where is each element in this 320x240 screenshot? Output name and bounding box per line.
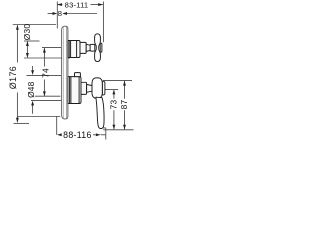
escutcheon plate side view [62, 26, 68, 119]
svg-text:Ø48: Ø48 [26, 81, 36, 98]
dimension 73 line upper segment [113, 90, 115, 99]
svg-text:87: 87 [119, 100, 129, 110]
dimension D30 down arrow [26, 53, 29, 58]
svg-text:88-116: 88-116 [63, 130, 92, 140]
dimension D48 top extension line [27, 74, 62, 76]
dimension D176 up arrow [16, 25, 19, 30]
dimension 74 line upper segment [43, 48, 45, 66]
dimension 83-111 right arrow [98, 3, 103, 6]
dimension 8 right-pointing arrow [53, 12, 58, 15]
dimension D48 upper leader with down arrow [32, 66, 34, 71]
lower neck [81, 82, 87, 94]
wall extension line [56, 2, 58, 29]
dimension 73 line lower segment [113, 110, 115, 129]
dimension 87 up arrow [123, 81, 126, 86]
dimension 8 left-pointing arrow [62, 12, 67, 15]
dimension 83-111 left arrow [57, 3, 62, 6]
dimension 74 line lower segment [43, 80, 45, 96]
upper sleeve D30 [68, 41, 80, 58]
svg-text:73: 73 [108, 100, 118, 110]
dimension D30 top extension line [24, 40, 40, 42]
lever pivot boss cap [102, 81, 105, 95]
dimension D48 lower leader with up arrow [32, 106, 34, 114]
upper sleeve ridge lines [68, 41, 70, 58]
svg-text:Ø176: Ø176 [8, 66, 18, 89]
lower sleeve ridge lines [69, 77, 71, 104]
dimension D176 bottom extension line [14, 122, 30, 124]
lower sleeve D48 [68, 77, 81, 104]
bottom extension line for 73 and 87 [103, 129, 133, 131]
dimension 83-111 line right stub [91, 4, 103, 6]
dimension 88-116 right extension vertical [105, 128, 107, 140]
upper neck [80, 42, 86, 53]
dimension 74 bottom extension line [35, 95, 60, 97]
dimension D30 bottom extension line [24, 57, 70, 59]
dimension 8 leader right [66, 13, 97, 15]
dimension 88-116 line tail [101, 134, 106, 136]
dimension D176 down arrow [16, 118, 19, 123]
dimension 73 up arrow [112, 90, 115, 95]
dimension 88-116 left arrow [57, 133, 62, 136]
cross handle hub stub [90, 44, 95, 51]
dimension D48 bottom extension line [31, 99, 61, 101]
lever tip extension tick [101, 127, 106, 129]
svg-text:Ø30: Ø30 [22, 24, 32, 41]
dimension D176 line upper segment [16, 25, 18, 62]
dimension D176 line lower segment [16, 93, 18, 123]
bottom-left long extension line [17, 116, 60, 118]
dimension 88-116 right arrow [96, 133, 101, 136]
handle-front extension line [102, 2, 104, 43]
plate front line [66, 27, 68, 119]
dimension 87 top extension line [103, 79, 132, 81]
svg-text:83-111: 83-111 [65, 0, 89, 9]
dimension D30 line [26, 42, 28, 58]
dimension 88-116 left extension vertical [56, 116, 58, 135]
dimension 87 line upper segment [124, 81, 126, 99]
dimension 87 line lower segment [124, 110, 126, 129]
svg-text:8: 8 [58, 9, 62, 18]
lower stem tapered [87, 84, 92, 92]
lower sleeve top button [75, 73, 81, 77]
lever pivot boss [92, 78, 102, 98]
dimension 88-116 line right stub [93, 134, 97, 136]
svg-text:74: 74 [41, 68, 51, 78]
lever grip [96, 97, 104, 128]
cross handle bar side view [95, 34, 101, 62]
dimension 8 leader left [48, 13, 54, 15]
plate face line [62, 26, 64, 119]
dimension 73 down arrow [112, 125, 115, 130]
dimension 74 up arrow [43, 48, 46, 53]
dimension 83-111 line left stub [57, 4, 62, 6]
dimension D176 top extension line [13, 24, 56, 26]
dimension 74 down arrow [43, 91, 46, 96]
dimension 87 down arrow [123, 125, 126, 130]
dimension 74 top extension line [42, 47, 61, 49]
upper stem tapered [86, 44, 91, 51]
dimension D30 up arrow [26, 41, 29, 46]
cross handle right cap [100, 43, 102, 52]
dimension 73 top extension line [103, 89, 118, 91]
